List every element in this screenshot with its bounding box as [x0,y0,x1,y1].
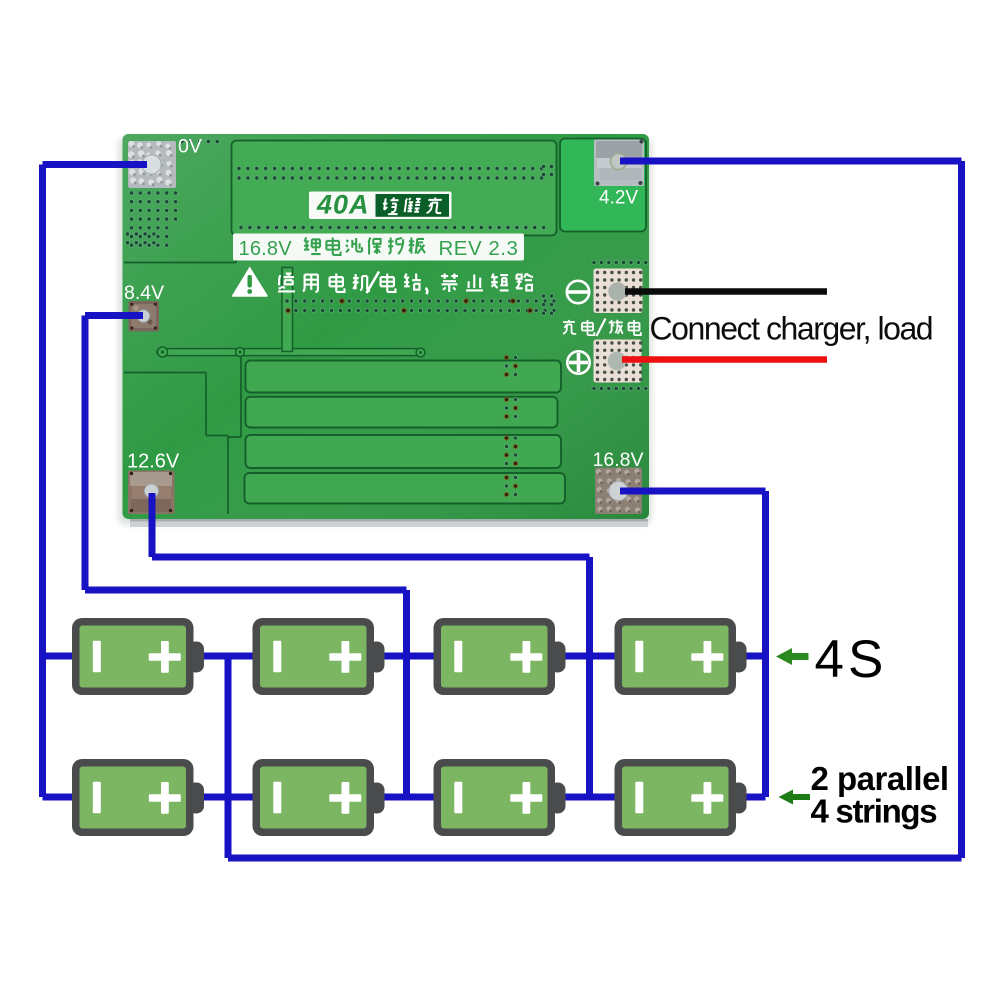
label 4S [815,630,888,689]
label 12.6V [127,451,180,473]
svg-text:12.6V: 12.6V [127,451,180,473]
svg-text:4 strings: 4 strings [811,793,937,830]
label 8.4V [124,282,164,304]
battery cell B1 (row 1, col 1) [72,618,204,695]
wire net 8.4V [85,316,407,798]
svg-text:16.8V: 16.8V [593,449,644,471]
wire net 16.8V [620,491,766,797]
PCB section outlines (left sections) [124,234,241,514]
svg-text:4S: 4S [815,630,888,689]
svg-text:Connect charger, load: Connect charger, load [650,311,933,347]
label 16.8V [593,449,644,471]
label 4.2V [599,188,638,209]
via row below plus pad [592,386,648,390]
thin horizontal trace with ring pads [157,347,425,357]
battery cell B5 (row 2, col 1) [72,759,204,836]
warning triangle [232,267,268,297]
label 2 parallel [811,760,949,797]
wire net 4.2V (long loop) [228,161,962,858]
battery cell B2 (row 1, col 2) [253,618,385,695]
minus symbol [567,281,589,303]
label 4 strings [811,793,937,830]
battery cell B7 (row 2, col 3) [434,759,566,836]
pad 4.2V [594,140,644,187]
battery cell B6 (row 2, col 2) [253,759,385,836]
pad 8.4V [129,301,160,332]
wire net 12.6V [152,493,590,797]
40A badge [309,190,452,220]
svg-text:4.2V: 4.2V [599,188,638,209]
pad 16.8V [595,468,642,515]
battery cell B3 (row 1, col 3) [434,618,566,695]
big trace T2 [246,397,558,428]
via rows middle [285,299,556,313]
wire row 2 series [43,794,766,801]
svg-text:8.4V: 8.4V [124,282,164,304]
silk charge/discharge CJK [563,319,641,337]
thin vertical trace [282,268,293,352]
svg-text:REV 2.3: REV 2.3 [439,237,519,260]
arrow 4S [776,648,809,665]
PCB board base [118,134,652,527]
pad 0V (solder blob) [128,141,176,188]
label Connect charger, load [650,311,933,347]
svg-text:0V: 0V [178,136,202,158]
svg-text:2 parallel: 2 parallel [811,760,949,797]
wire row 1 series [43,653,766,660]
wire charger negative (black) [625,288,827,295]
pad charge plus (with via grid) [594,340,643,383]
wire charger positive (red) [622,356,827,363]
via row above minus pad [592,260,648,264]
silk warning CJK text [278,272,533,295]
battery cell B8 (row 2, col 4) [615,759,747,836]
REV box text [239,237,519,260]
pad 12.6V [128,471,175,515]
big trace T4 [245,473,566,504]
via rows top region [237,166,546,229]
PCB top trace region [232,141,557,236]
big trace T1 [246,361,562,393]
PCB 4.2V corner section [560,139,646,232]
big trace T3 [246,435,562,468]
label 0V [178,136,202,158]
40A badge CJK (均衡充) [381,197,443,214]
via clusters at trace ends [505,356,518,497]
wire net 0V (pad to left rail) [43,165,148,798]
arrow 2p4s [779,790,811,805]
REV white box [233,234,524,261]
plus symbol [567,351,589,373]
pad charge minus (with via grid) [594,269,643,314]
via grid 0V corner [125,139,219,247]
svg-text:16.8V: 16.8V [239,238,293,260]
via pairs near 4.2V section [541,164,553,315]
battery cell B4 (row 1, col 4) [615,618,747,695]
svg-text:40A: 40A [316,190,370,220]
